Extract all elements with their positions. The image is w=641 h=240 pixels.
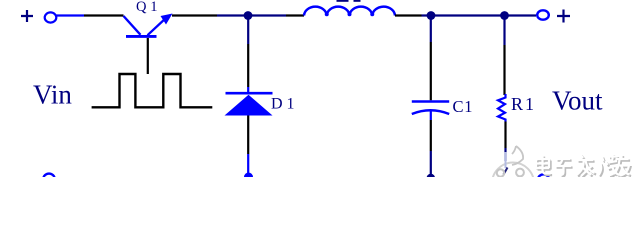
watermark logo [492, 146, 534, 205]
capacitor C1 [412, 100, 449, 103]
wire node to diode D1 [247, 19, 249, 44]
junction dot node D1 [244, 11, 253, 20]
junction dot bottom rail at D1 [244, 173, 253, 182]
svg-text:C: C [453, 97, 464, 116]
wire diode D1 to bottom rail [247, 116, 249, 155]
terminal circle output + [537, 10, 549, 19]
wire inductor to node C1 [395, 14, 422, 16]
wire resistor R1 to bottom rail [504, 122, 506, 149]
junction dot bottom rail at C1 [427, 174, 435, 182]
transistor Q1 [124, 16, 167, 36]
junction dot node C1 [427, 11, 436, 20]
wire Q1 emitter to node [172, 14, 217, 16]
svg-text:D 1: D 1 [271, 96, 295, 113]
terminal circle input + [45, 12, 57, 22]
plus sign + (input positive) [21, 10, 33, 22]
junction dot node R1 [500, 11, 509, 20]
svg-text:1: 1 [150, 0, 157, 15]
svg-text:Vout: Vout [552, 86, 603, 116]
resistor R1 [498, 94, 506, 122]
wire node to capacitor C1 [430, 20, 432, 43]
PWM square wave drive signal [92, 74, 213, 107]
svg-text:1: 1 [464, 97, 472, 116]
base lead wire Q1 [147, 38, 149, 74]
plus sign + (output positive) [557, 10, 570, 23]
watermark text [538, 155, 632, 178]
terminal circle output negative (bottom right, cut off) [538, 174, 549, 185]
inductor L1 [304, 7, 395, 16]
svg-text:Q: Q [136, 0, 147, 15]
svg-text:R: R [511, 94, 523, 114]
terminal circle input negative (bottom left, cut off) [43, 174, 54, 185]
svg-text:1: 1 [525, 94, 534, 114]
label L1 (cut off at top edge) [337, 0, 349, 2]
diode D1 [226, 92, 273, 95]
wire node to resistor R1 [503, 20, 505, 46]
wire capacitor C1 to bottom rail [430, 120, 432, 151]
svg-text:Vin: Vin [33, 80, 72, 110]
wire terminal to Q1 collector [57, 14, 85, 16]
